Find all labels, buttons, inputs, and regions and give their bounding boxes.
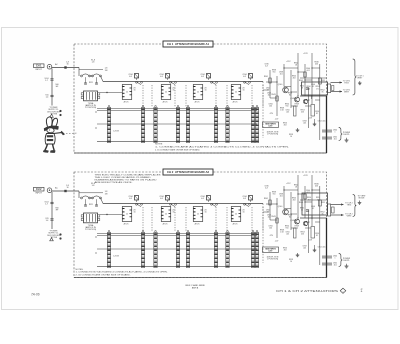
svg-text:1-7: 1-7	[45, 80, 48, 82]
switch matrix bus lines A2	[95, 234, 257, 267]
symbol test point below decoupling note CH 2	[50, 238, 54, 241]
contact strip S956 in matrix	[226, 105, 229, 142]
svg-text:R921: R921	[89, 82, 93, 84]
capacitor C962 power decoupling	[322, 137, 337, 141]
ground power decoupling A2	[345, 264, 349, 268]
label T920 AMPL IS IN 1 POSITION	[85, 102, 97, 109]
attenuator module AT932 stage 3	[193, 85, 207, 104]
svg-text:+12V: +12V	[286, 61, 291, 63]
relay contacts K1030 on signal line	[136, 203, 143, 206]
transformer T1020 hybrid	[81, 213, 100, 223]
svg-text:REF 2 AND MRB: REF 2 AND MRB	[186, 284, 206, 287]
misc component labels amplifier A2	[266, 210, 292, 238]
svg-text:7A-06: 7A-06	[31, 293, 40, 297]
svg-text:1 POSITION): 1 POSITION)	[267, 259, 279, 261]
label T1020 AMPL IS IN 1 POSITION	[85, 224, 97, 231]
resistor R113 900 HF	[55, 84, 59, 88]
ground at CH 1 output	[358, 81, 362, 85]
svg-text:16: 16	[173, 90, 175, 92]
diamond revision symbol	[340, 288, 346, 293]
relay coil K933 and value labels	[242, 74, 252, 81]
svg-text:4-8: 4-8	[243, 76, 246, 78]
svg-text:ARE EFFECTIVE AS ONCE.: ARE EFFECTIVE AS ONCE.	[95, 181, 134, 184]
wire output stage line A1	[300, 78, 327, 96]
svg-text:1 POSITION): 1 POSITION)	[85, 229, 97, 231]
capacitor C211 input chain	[45, 202, 54, 206]
ground at CH 2 output	[358, 201, 362, 205]
relay coil K930 and value labels	[128, 74, 138, 81]
svg-text:MODE: MODE	[359, 198, 365, 200]
svg-text:16: 16	[134, 212, 136, 214]
wire transformer output A2	[100, 214, 123, 215]
relay K920B input	[92, 74, 102, 77]
svg-text:Q942: Q942	[290, 220, 294, 222]
svg-text:910: 910	[273, 72, 276, 74]
labels near decoupling A2	[283, 246, 307, 263]
wire input J910 to board A1	[52, 66, 79, 68]
svg-text:1 POSITION): 1 POSITION)	[267, 134, 279, 136]
svg-text:R951: R951	[321, 202, 325, 204]
svg-text:1-8 1M: 1-8 1M	[113, 131, 119, 133]
svg-text:AT 2X: AT 2X	[195, 101, 201, 104]
svg-text:82: 82	[289, 95, 291, 97]
contact strip S1053 in matrix	[176, 230, 179, 267]
relay contacts K930 on signal line	[136, 81, 143, 84]
svg-text:AMP A: AMP A	[192, 287, 199, 290]
hybrid amplifier module U1050	[302, 193, 328, 219]
svg-text:R941: R941	[264, 76, 268, 78]
note power supply decoupling CH 2	[47, 231, 61, 240]
wire input J1010 to board A2	[52, 190, 79, 192]
contact strip S951 in matrix	[141, 105, 144, 142]
svg-text:NOTES:: NOTES:	[155, 144, 163, 146]
label 7A06 handwritten	[31, 293, 40, 297]
svg-text:R947: R947	[306, 100, 310, 102]
attenuator module AT1031 stage 2	[161, 207, 175, 226]
resistor R1047	[306, 222, 315, 238]
label JL initials	[360, 289, 363, 293]
label DECPL position A2	[267, 256, 279, 260]
svg-text:.001: .001	[279, 196, 282, 198]
resistor labels upper amplifier A2	[294, 184, 319, 195]
resistor R947	[306, 100, 315, 116]
wire power feed along right edge A1	[326, 96, 328, 153]
note power supply decoupling CH 1	[47, 107, 61, 116]
svg-text:.001: .001	[286, 234, 289, 236]
svg-text:453: 453	[315, 64, 318, 66]
svg-text:THE LOGIC CODED BOARDS. PLUMB: THE LOGIC CODED BOARDS. PLUMBED	[95, 176, 152, 179]
resistor R1043	[271, 216, 278, 223]
svg-text:R947: R947	[306, 222, 310, 224]
svg-text:Q940: Q940	[278, 84, 282, 86]
wire transformer output A1	[100, 92, 123, 93]
svg-text:2. 16 CONTACTS ARE ON FAR SIDE: 2. 16 CONTACTS ARE ON FAR SIDE OF BOARD.	[155, 149, 200, 152]
label C1003 inside board corner	[91, 183, 95, 187]
svg-text:910: 910	[273, 194, 276, 196]
svg-text:82: 82	[289, 217, 291, 219]
svg-text:1: 1	[335, 257, 336, 259]
svg-text:CH 2: CH 2	[36, 188, 42, 191]
svg-text:4-8: 4-8	[265, 66, 268, 68]
svg-text:.001: .001	[333, 138, 336, 140]
svg-text:16: 16	[243, 90, 245, 92]
ground power decoupling A1	[345, 138, 349, 142]
svg-text:R921: R921	[89, 204, 93, 206]
capacitor C922 under input relays	[84, 77, 98, 84]
svg-text:1. CONTACTS ARE ACTUATED 4 CON: 1. CONTACTS ARE ACTUATED 4 CONTACTS CLOS…	[155, 146, 290, 149]
svg-text:2. 16 CONTACTS ARE ON FAR SIDE: 2. 16 CONTACTS ARE ON FAR SIDE OF BOARD.	[76, 273, 132, 276]
svg-text:.001: .001	[267, 217, 270, 219]
svg-text:8.2: 8.2	[312, 86, 314, 88]
connector J1010 CH 2 INPUT	[34, 187, 52, 194]
svg-text:+12V: +12V	[303, 175, 308, 177]
symbol test point below decoupling note CH 1	[50, 114, 54, 117]
label TO VERT MODE SWITCHING CH 2	[357, 196, 366, 200]
resistor R920 1M label	[105, 68, 108, 72]
resistor network R1070 at CH 2 board edge	[328, 204, 335, 216]
svg-text:AT 2X: AT 2X	[233, 101, 239, 104]
labels near decoupling A1	[283, 121, 307, 138]
svg-text:16: 16	[290, 136, 292, 138]
attenuator module AT930 stage 1	[122, 85, 136, 104]
svg-text:+12V: +12V	[286, 183, 291, 185]
notes block board A2	[76, 269, 169, 276]
relay coil K931 and value labels	[159, 74, 169, 81]
wire entry drop inside board A1	[78, 68, 80, 77]
resistor R1049	[294, 226, 299, 239]
relay contacts K1033 on signal line	[244, 203, 251, 206]
wire entry drop inside board A2	[78, 191, 80, 198]
svg-text:1M: 1M	[105, 193, 108, 195]
wire relay bypass bus A2	[79, 192, 103, 194]
svg-text:R949: R949	[295, 226, 299, 228]
svg-text:8.2: 8.2	[316, 235, 318, 237]
svg-text:DECPL: DECPL	[343, 260, 349, 262]
connector J910 CH 1 INPUT	[34, 64, 52, 71]
attenuator board A1 dashed outline	[74, 44, 327, 153]
relay coil K1033 and value labels	[242, 196, 252, 203]
relay K1020A input	[81, 196, 91, 199]
wire input grid chain CH 1	[51, 69, 53, 106]
transistor Q1044 driver	[303, 221, 307, 226]
notes block board A1	[155, 144, 290, 152]
svg-text:4-8: 4-8	[243, 198, 246, 200]
contact strip S950 in matrix	[107, 105, 110, 142]
svg-text:AT 2X: AT 2X	[163, 101, 169, 104]
relay contacts K932 on signal line	[211, 81, 218, 84]
contact strip S953 in matrix	[176, 105, 179, 142]
svg-text:4-8: 4-8	[201, 76, 204, 78]
attenuator module AT931 stage 2	[161, 85, 175, 104]
ground reference with capacitor C1052 A2	[313, 245, 326, 252]
note block electrically coded board A2	[95, 173, 162, 184]
svg-text:453: 453	[307, 88, 310, 90]
svg-text:DECPL: DECPL	[343, 134, 349, 136]
transistor Q1040 input follower	[278, 206, 289, 215]
svg-text:R949: R949	[295, 104, 299, 106]
svg-text:453: 453	[284, 249, 287, 251]
svg-text:1: 1	[335, 131, 336, 133]
capacitor C111 input chain	[45, 78, 54, 82]
relay contacts K1031 on signal line	[170, 203, 177, 206]
svg-text:16: 16	[66, 63, 68, 65]
label AC input	[55, 187, 58, 190]
resistor R1020 1M label	[105, 191, 108, 195]
svg-text:INPUT: INPUT	[35, 193, 42, 195]
svg-text:TRIG: TRIG	[347, 205, 352, 207]
label +12V supply A2	[286, 175, 308, 185]
capacitor C1022 under input relays	[84, 199, 98, 206]
svg-text:16: 16	[66, 187, 68, 189]
contact strip S1055 in matrix	[214, 230, 217, 267]
svg-text:AT 2X: AT 2X	[124, 223, 130, 226]
svg-text:NOTES:: NOTES:	[76, 269, 84, 271]
contact strip S952 in matrix	[154, 105, 157, 142]
label SEE PARTS LIST A1	[263, 122, 279, 128]
wire output arrows CH 1	[331, 81, 343, 92]
brace power decoupling A1	[339, 128, 351, 141]
capacitor C960 power decoupling	[322, 130, 337, 134]
relay coil K1030 and value labels	[128, 196, 138, 203]
svg-text:16: 16	[290, 261, 292, 263]
ground amplifier mid A1	[296, 128, 300, 132]
wire supply rails amplifier A2	[270, 175, 320, 265]
svg-text:453: 453	[315, 186, 318, 188]
contact strip S1054 in matrix	[186, 230, 189, 267]
board A1 title box CH 1 ATTENUATOR BOARD	[163, 41, 213, 47]
resistor R1045	[299, 194, 306, 204]
svg-text:.001: .001	[286, 112, 289, 114]
wire matrix to amplifier separator A2	[262, 204, 264, 264]
svg-text:1 POSITION): 1 POSITION)	[85, 107, 97, 109]
attenuator module AT1030 stage 1	[122, 207, 136, 226]
svg-text:.001: .001	[303, 122, 306, 124]
svg-text:453: 453	[301, 112, 304, 114]
svg-text:+12V: +12V	[303, 53, 308, 55]
svg-text:CH 2 ATTENUATOR BOARD A2: CH 2 ATTENUATOR BOARD A2	[167, 170, 210, 174]
svg-text:453: 453	[293, 200, 296, 202]
svg-text:NUMBERS ASSIGNED TO PARTS ON P: NUMBERS ASSIGNED TO PARTS ON PLACED	[95, 179, 158, 182]
switch matrix bus lines A1	[95, 109, 257, 142]
relay coil K932 and value labels	[200, 74, 210, 81]
svg-text:4-8: 4-8	[265, 188, 268, 190]
svg-text:Q942: Q942	[290, 98, 294, 100]
svg-text:1M: 1M	[105, 70, 108, 72]
label AC input	[55, 63, 58, 66]
brace output CH 1	[353, 59, 357, 95]
label TO CH 1 VERT lower	[343, 90, 350, 94]
svg-text:1-8: 1-8	[92, 185, 95, 187]
svg-text:.001: .001	[303, 247, 306, 249]
resistor R945	[299, 72, 306, 82]
wire dashed muzzle line from mascot to board	[66, 132, 78, 135]
capacitor C1060 power decoupling	[322, 256, 337, 260]
resistor R949	[294, 104, 299, 117]
resistor network R970 at CH 1 board edge	[328, 84, 334, 93]
contact strip S1051 in matrix	[141, 230, 144, 267]
board A2 title box CH 2 ATTENUATOR BOARD	[163, 169, 213, 175]
contact strip S1050 in matrix	[107, 230, 110, 267]
transformer T920 hybrid	[81, 91, 100, 101]
svg-text:AT 2X: AT 2X	[163, 223, 169, 226]
contact strip S1056 in matrix	[226, 230, 229, 267]
hybrid amplifier module U950	[302, 82, 328, 99]
resistor R1051	[318, 200, 325, 206]
svg-text:8.2: 8.2	[312, 208, 314, 210]
label sheet reference REF 2 AND MRB	[186, 284, 206, 290]
svg-text:4-8: 4-8	[201, 198, 204, 200]
transistor Q942 output	[290, 97, 299, 102]
svg-text:100: 100	[269, 106, 272, 108]
svg-text:R945: R945	[299, 202, 303, 204]
svg-text:16: 16	[134, 90, 136, 92]
wire main signal line A1	[103, 81, 263, 83]
label TO CH 1 TRIG upper	[343, 81, 350, 85]
contact strip S957 in matrix	[251, 105, 254, 142]
svg-text:R943: R943	[271, 216, 275, 218]
transistor Q944 driver	[303, 99, 307, 104]
svg-text:.001: .001	[267, 95, 270, 97]
svg-text:TRIG: TRIG	[344, 83, 349, 85]
label C1001 input coupling	[66, 185, 69, 189]
resistor labels upper amplifier A1	[294, 62, 319, 73]
wire input grid chain CH 2	[51, 192, 53, 229]
relay K1020B input	[92, 196, 102, 199]
wire output arrows CH 2	[331, 203, 344, 216]
svg-text:AT 2X: AT 2X	[195, 223, 201, 226]
contact strip S955 in matrix	[214, 105, 217, 142]
svg-text:4-8: 4-8	[160, 76, 163, 78]
relay contacts K931 on signal line	[170, 81, 177, 84]
misc small value labels amplifier A2	[264, 186, 324, 243]
svg-text:CH 1 & CH 2 ATTENUATORS: CH 1 & CH 2 ATTENUATORS	[276, 289, 338, 293]
wire power feed along right edge A2	[326, 218, 328, 278]
svg-text:.001: .001	[333, 264, 336, 266]
capacitor C1062 power decoupling	[322, 263, 337, 267]
wire relay bypass bus A1	[79, 68, 103, 70]
resistor R943	[271, 94, 278, 101]
svg-text:910: 910	[286, 106, 289, 108]
ground amplifier mid A2	[296, 253, 300, 257]
label TO CH 1 VERT MODE SWITCHING	[356, 76, 363, 80]
svg-text:R941: R941	[264, 198, 268, 200]
svg-text:THIS ELECTRICALLY CODED BOARD: THIS ELECTRICALLY CODED BOARD REPLACES	[95, 173, 162, 176]
label C903 inside board corner	[91, 59, 95, 63]
wire output stage line A2	[300, 200, 327, 218]
wire supply rails amplifier A1	[270, 53, 320, 140]
wire relay links A1	[90, 76, 104, 82]
svg-text:1. CONTACTS NOT ACTUATED 4 CON: 1. CONTACTS NOT ACTUATED 4 CONTACTS ACTU…	[76, 271, 169, 274]
attenuator module AT1032 stage 3	[193, 207, 207, 226]
relay contacts K933 on signal line	[244, 81, 251, 84]
svg-text:16: 16	[173, 212, 175, 214]
wire dashed drops from stages to matrix A1	[143, 85, 263, 107]
svg-text:AT 2X: AT 2X	[233, 223, 239, 226]
transistor Q940 input follower	[278, 84, 289, 93]
svg-text:453: 453	[301, 234, 304, 236]
svg-text:4-8: 4-8	[160, 198, 163, 200]
svg-text:Q940: Q940	[278, 206, 282, 208]
svg-text:1-8: 1-8	[92, 61, 95, 63]
svg-text:1-7: 1-7	[45, 204, 48, 206]
svg-text:453: 453	[293, 78, 296, 80]
relay coil K1032 and value labels	[200, 196, 210, 203]
capacitor C1046 interstage	[306, 210, 309, 211]
misc small value labels amplifier A1	[264, 64, 324, 121]
contact strip S1058 in matrix	[255, 230, 258, 267]
contact strip S954 in matrix	[186, 105, 189, 142]
svg-text:1-8 1M: 1-8 1M	[113, 256, 119, 258]
cartoon gremlin mascot firing at board	[43, 117, 65, 153]
attenuator board A2 dashed outline	[74, 172, 327, 278]
wire main signal line A2	[103, 203, 263, 205]
svg-text:AT 2X: AT 2X	[124, 101, 130, 104]
svg-text:1-4: 1-4	[46, 97, 49, 99]
svg-text:16: 16	[243, 212, 245, 214]
attenuator module AT933 stage 4	[231, 85, 245, 104]
svg-text:C952 .001: C952 .001	[318, 247, 326, 249]
capacitor C115 input chain	[45, 95, 53, 99]
resistor R213 900 HF	[55, 208, 59, 212]
wire short interconnects amplifier A1	[263, 67, 320, 106]
label +12V supply A1	[286, 53, 308, 63]
wire short interconnects amplifier A2	[263, 189, 320, 228]
svg-text:CH 1 ATTENUATOR BOARD A1: CH 1 ATTENUATOR BOARD A1	[167, 42, 210, 46]
svg-text:1-4: 1-4	[46, 220, 49, 222]
svg-text:.001: .001	[306, 70, 310, 72]
label TO CH 2 TRIG upper	[345, 203, 352, 207]
misc component labels amplifier A1	[266, 88, 292, 116]
resistor R941	[264, 76, 271, 83]
svg-text:.001: .001	[279, 74, 282, 76]
contact strip S1052 in matrix	[154, 230, 157, 267]
wire dashed drops from stages to matrix A2	[143, 207, 263, 232]
svg-text:VERT: VERT	[344, 92, 350, 94]
svg-text:8.2: 8.2	[316, 113, 318, 115]
svg-text:4-8: 4-8	[129, 76, 132, 78]
contact strip S1057 in matrix	[251, 230, 254, 267]
svg-text:453: 453	[284, 124, 287, 126]
transistor Q1042 output	[290, 219, 299, 224]
svg-text:16: 16	[205, 212, 207, 214]
relay coil K1031 and value labels	[159, 196, 169, 203]
svg-text:4-8: 4-8	[129, 198, 132, 200]
svg-text:CH 1: CH 1	[36, 65, 42, 68]
label SEE PARTS LIST A2	[263, 247, 279, 253]
capacitor C215 input chain	[45, 218, 53, 222]
relay contacts K1032 on signal line	[211, 203, 218, 206]
label TO CH 2 VERT lower	[345, 214, 352, 218]
brace output CH 2	[353, 195, 357, 217]
attenuator module AT1033 stage 4	[231, 207, 245, 226]
svg-text:INPUT: INPUT	[35, 69, 42, 71]
brace power decoupling A2	[339, 254, 351, 267]
svg-text:910: 910	[286, 228, 289, 230]
svg-text:16: 16	[205, 90, 207, 92]
svg-text:VERT: VERT	[346, 216, 352, 218]
svg-text:100: 100	[269, 228, 272, 230]
ground reference with capacitor C952 A1	[313, 119, 326, 126]
relay K920A input	[81, 74, 91, 77]
contact strip S958 in matrix	[255, 105, 258, 142]
svg-text:C952 .001: C952 .001	[318, 121, 326, 123]
svg-text:453: 453	[308, 199, 311, 201]
wire matrix to amplifier separator A1	[262, 82, 264, 139]
svg-text:VERT: VERT	[357, 78, 363, 80]
capacitor C946 interstage	[306, 88, 309, 89]
label DECPL position A1	[267, 131, 279, 135]
svg-text:R943: R943	[271, 94, 275, 96]
